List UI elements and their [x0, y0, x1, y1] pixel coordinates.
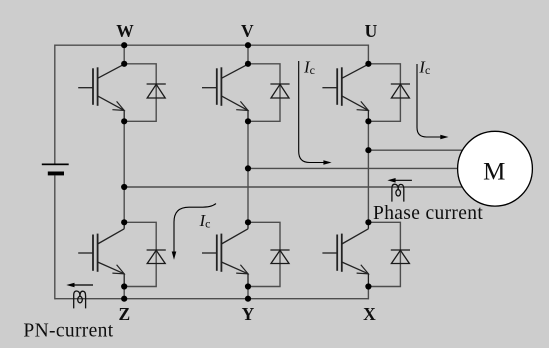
arrow phase current direction (left) [387, 178, 412, 183]
node W upper collector junction [121, 61, 127, 67]
diode D5 (V lower freewheel) [248, 222, 290, 286]
wire leg W lower [123, 287, 125, 299]
svg-text:Z: Z [119, 304, 131, 324]
node U upper collector junction [365, 61, 371, 67]
arrow Ic annotation U leg (down then right) [417, 64, 449, 139]
wire bottom rail (N bus) [55, 298, 369, 300]
svg-text:U: U [365, 21, 378, 41]
wire leg U lower [367, 287, 369, 300]
arrow Ic annotation V leg (down then right) [299, 61, 332, 165]
label U [365, 21, 378, 41]
node W lower emitter junction [121, 283, 127, 289]
transistor Q2 (V upper IGBT) [202, 64, 248, 121]
label PN-current [23, 320, 113, 341]
node W top rail junction [121, 42, 127, 48]
node W upper emitter junction [121, 118, 127, 124]
diode D1 (W upper freewheel) [124, 64, 166, 122]
node V bottom rail junction [245, 296, 251, 302]
label Phase current [373, 203, 483, 224]
svg-text:PN-current: PN-current [23, 320, 113, 341]
wire leg V lower [247, 287, 249, 299]
wire phase U to motor [368, 149, 462, 151]
transistor Q6 (U lower IGBT) [322, 222, 368, 286]
transistor Q5 (V lower IGBT) [202, 222, 248, 286]
node U lower emitter junction [365, 283, 371, 289]
transistor Q3 (U upper IGBT) [322, 64, 368, 121]
wire leg W upper [123, 45, 125, 64]
svg-text:Phase current: Phase current [373, 203, 483, 224]
arrow Ic annotation V lower leg (left then down) [172, 204, 216, 260]
node U phase tap [365, 147, 371, 153]
node W phase tap [121, 184, 127, 190]
label Ic U leg [418, 57, 430, 77]
wire leg U upper [367, 45, 369, 64]
transistor Q4 (W lower IGBT) [78, 222, 124, 286]
wire phase V to motor [248, 167, 458, 169]
wire left rail lower (battery - lead) [54, 175, 56, 299]
node V top rail junction [245, 42, 251, 48]
label Z [119, 304, 131, 324]
node V lower collector junction [245, 219, 251, 225]
node W bottom rail junction [121, 296, 127, 302]
arrow PN current direction (left) [66, 283, 93, 288]
current sensor phase W line [392, 184, 404, 201]
svg-text:X: X [363, 304, 376, 324]
wire phase W to motor [124, 186, 462, 188]
diode D2 (V upper freewheel) [248, 64, 290, 122]
label X [363, 304, 376, 324]
wire top rail (P bus) [55, 44, 369, 46]
node V lower emitter junction [245, 283, 251, 289]
svg-text:Y: Y [242, 304, 255, 324]
battery E1 [42, 164, 69, 176]
node U lower collector junction [365, 219, 371, 225]
diode D3 (U upper freewheel) [368, 64, 410, 122]
label Y [242, 304, 255, 324]
node W lower collector junction [121, 219, 127, 225]
label Ic V lower [199, 211, 211, 231]
diode D6 (U lower freewheel) [368, 222, 410, 286]
label W [116, 21, 134, 41]
wire leg U middle [367, 121, 369, 222]
transistor Q1 (W upper IGBT) [78, 64, 124, 121]
node U upper emitter junction [365, 118, 371, 124]
node V upper emitter junction [245, 118, 251, 124]
label V [241, 21, 254, 41]
wire leg V upper [247, 45, 249, 64]
node V upper collector junction [245, 61, 251, 67]
motor M [458, 131, 533, 206]
wire left rail upper (battery + lead) [54, 45, 56, 165]
node V phase tap [245, 165, 251, 171]
label Ic V leg [303, 57, 315, 77]
diode D4 (W lower freewheel) [124, 222, 166, 286]
current sensor PN (on N bus) [74, 291, 86, 308]
svg-text:W: W [116, 21, 134, 41]
svg-text:M: M [483, 159, 505, 186]
wire leg V middle [247, 121, 249, 222]
wire leg W middle [123, 121, 125, 222]
svg-text:V: V [241, 21, 254, 41]
